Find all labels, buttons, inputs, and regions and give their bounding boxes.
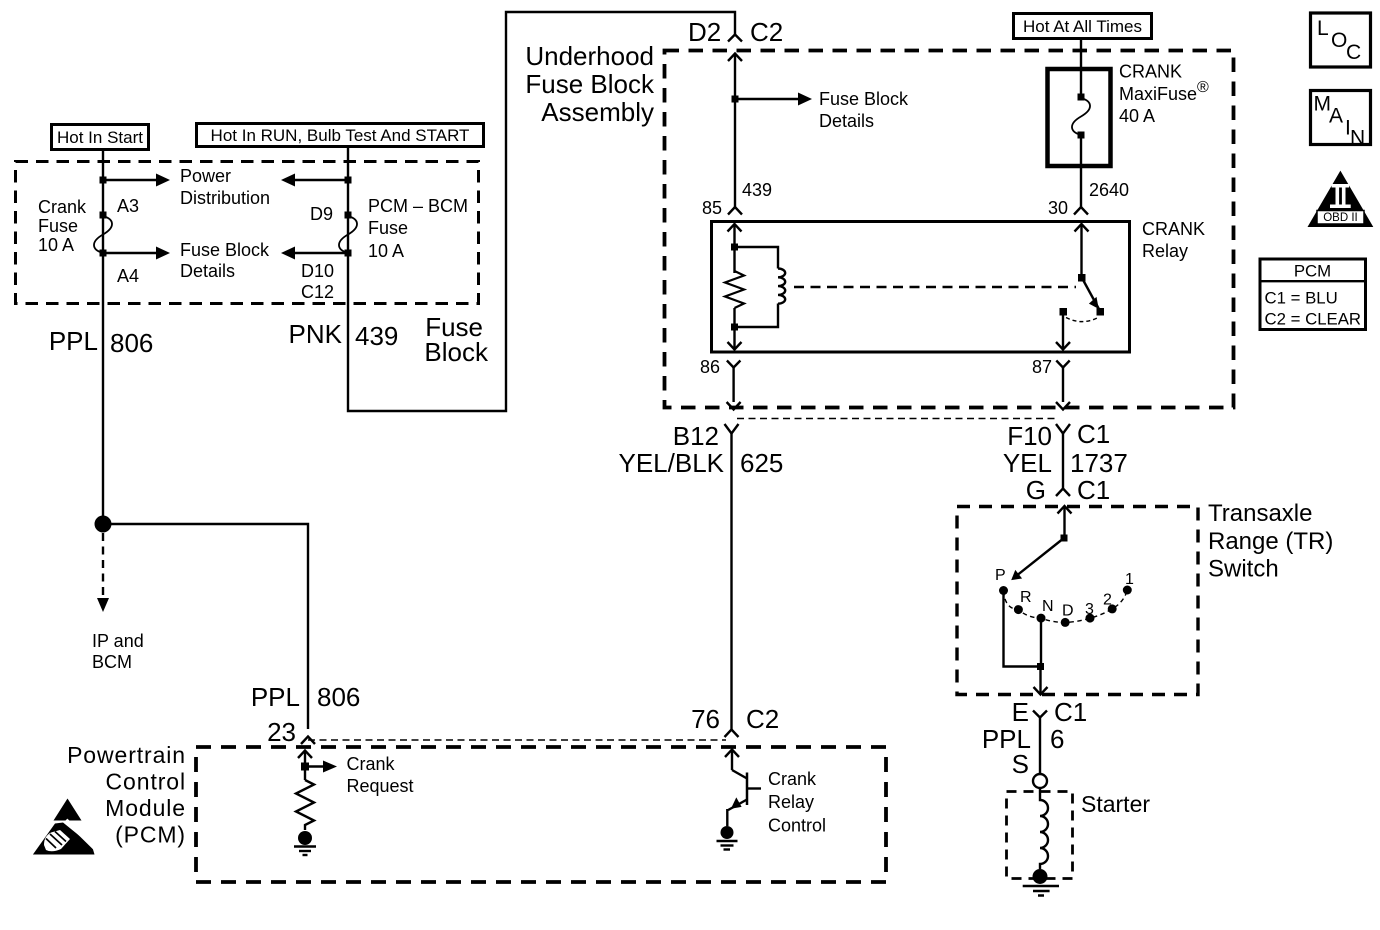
label Transaxle Range (TR) Switch: [1208, 500, 1333, 583]
wire label PNK 439: [289, 319, 399, 351]
maxifuse bottom terminal: [1078, 132, 1085, 139]
PCM pin 23 arrow up: [298, 751, 312, 781]
MAIN legend box: [1311, 91, 1371, 150]
svg-text:MaxiFuse: MaxiFuse: [1119, 84, 1197, 104]
transistor ground: [717, 826, 738, 850]
svg-text:439: 439: [742, 180, 772, 200]
relay switch contact (NO): [1097, 308, 1105, 316]
arrow to Power Distribution (left): [103, 174, 170, 187]
svg-text:Details: Details: [819, 111, 874, 131]
maxifuse element: [1072, 98, 1090, 135]
svg-text:Control: Control: [106, 769, 186, 795]
wire maxifuse to pin 30: [1080, 135, 1082, 207]
svg-text:1737: 1737: [1070, 448, 1128, 478]
svg-text:Hot In RUN, Bulb Test And STAR: Hot In RUN, Bulb Test And START: [211, 126, 470, 145]
svg-text:Block: Block: [424, 337, 489, 367]
relay coil winding: [738, 247, 785, 327]
thin dashed connector line PCM: [308, 739, 726, 741]
svg-text:Assembly: Assembly: [541, 97, 654, 127]
svg-text:Underhood: Underhood: [525, 41, 654, 71]
svg-text:Crank: Crank: [347, 754, 396, 774]
wire pin 87 arrow down: [1056, 316, 1070, 350]
svg-text:PCM: PCM: [1294, 262, 1331, 281]
wire label PPL 6: [982, 724, 1065, 754]
wire to PCM pin 23: [103, 524, 308, 729]
connector chevron 76: [725, 730, 739, 738]
pin 76 C2: [691, 704, 779, 734]
svg-text:D9: D9: [310, 204, 333, 224]
svg-text:86: 86: [700, 357, 720, 377]
svg-text:2640: 2640: [1089, 180, 1129, 200]
svg-text:10 A: 10 A: [38, 235, 74, 255]
svg-text:76: 76: [691, 704, 720, 734]
svg-text:PCM – BCM: PCM – BCM: [368, 196, 468, 216]
wire PNK 439 from Hot In RUN box through fuse, loop to D2: [348, 12, 735, 411]
svg-text:Fuse Block: Fuse Block: [525, 69, 655, 99]
svg-text:Hot At All Times: Hot At All Times: [1023, 17, 1142, 36]
svg-text:Details: Details: [180, 261, 235, 281]
connector chevron 30: [1074, 207, 1088, 215]
TR contact dashed arc: [1004, 590, 1128, 622]
fuse block dashed box: [16, 162, 479, 304]
TR contact R: [1014, 605, 1023, 614]
LOC legend box: [1311, 13, 1371, 67]
starter ground: [1023, 869, 1059, 896]
svg-text:C: C: [1346, 41, 1361, 64]
svg-text:BCM: BCM: [92, 652, 132, 672]
junction D10 fuse bottom: [345, 250, 352, 257]
connector chevron 23: [301, 737, 315, 745]
label box "Hot In Start": [52, 125, 149, 150]
svg-text:Relay: Relay: [1142, 241, 1188, 261]
TR wire in, arrow up: [1058, 506, 1072, 538]
junction D9 fuse top: [345, 212, 352, 219]
TR output arrow down: [1034, 667, 1048, 695]
svg-text:G: G: [1026, 475, 1046, 505]
transistor Q1 crank relay driver: [727, 770, 761, 826]
label Underhood Fuse Block Assembly: [525, 41, 655, 127]
svg-text:L: L: [1317, 17, 1329, 40]
junction A3 fuse top: [100, 212, 107, 219]
svg-text:806: 806: [317, 682, 360, 712]
TR contact P: [999, 586, 1008, 595]
CRANK relay box: [712, 222, 1130, 353]
relay switch contact pin 87: [1060, 308, 1068, 316]
svg-text:30: 30: [1048, 198, 1068, 218]
wire to pin 86, arrow down: [728, 308, 742, 350]
svg-text:O: O: [1331, 29, 1347, 52]
label PCM-BCM Fuse 10 A: [368, 196, 468, 261]
connector chevron D2/C2: [728, 35, 742, 42]
label Fuse Block Details (underhood): [819, 89, 909, 131]
svg-text:C1: C1: [1077, 475, 1110, 505]
terminal ring: [1033, 774, 1047, 788]
svg-text:10 A: 10 A: [368, 241, 404, 261]
svg-text:A3: A3: [117, 196, 139, 216]
junction dot to IP/BCM: [95, 516, 112, 533]
TR wire N to output: [1040, 622, 1042, 667]
svg-text:2: 2: [1103, 592, 1112, 609]
pin 87 connector and arrow: [1032, 357, 1070, 410]
relay switch common junction: [1078, 274, 1086, 282]
svg-text:D: D: [1062, 603, 1074, 620]
wire YEL/BLK 625: [730, 434, 732, 730]
starter dashed box: [1007, 792, 1073, 879]
svg-text:PNK: PNK: [289, 319, 343, 349]
svg-text:806: 806: [110, 328, 153, 358]
relay coil bottom junction: [731, 324, 738, 331]
svg-text:1: 1: [1125, 571, 1134, 588]
svg-text:439: 439: [355, 321, 398, 351]
svg-text:Transaxle: Transaxle: [1208, 500, 1312, 527]
svg-text:Request: Request: [347, 776, 414, 796]
svg-text:A4: A4: [117, 266, 139, 286]
svg-text:D10: D10: [301, 261, 334, 281]
svg-text:Crank: Crank: [768, 769, 817, 789]
label box "Hot At All Times": [1014, 14, 1152, 39]
arrow to Crank Request: [305, 761, 337, 773]
svg-text:Power: Power: [180, 166, 231, 186]
connector chevron 85: [728, 207, 742, 215]
wire PPL 806 from Hot In Start down: [102, 151, 104, 524]
OBD II symbol: [1308, 171, 1374, 227]
label Power Distribution: [180, 166, 270, 208]
PCM pin 76 arrow up: [725, 750, 739, 771]
label Powertrain Control Module (PCM): [67, 742, 186, 848]
svg-text:CRANK: CRANK: [1142, 219, 1205, 239]
connector labels D2 C2: [688, 17, 783, 47]
thin dashed connector line B12-F10: [737, 418, 1056, 420]
label Fuse Block Details: [180, 240, 270, 281]
svg-text:Range (TR): Range (TR): [1208, 528, 1333, 555]
svg-text:87: 87: [1032, 357, 1052, 377]
starter solenoid coil: [1040, 788, 1048, 869]
relay resistor: [725, 271, 744, 308]
svg-text:C12: C12: [301, 282, 334, 302]
svg-text:Switch: Switch: [1208, 556, 1279, 583]
svg-text:Module: Module: [105, 795, 186, 821]
arrow to Fuse Block Details (underhood): [735, 93, 812, 106]
svg-text:YEL: YEL: [1003, 448, 1052, 478]
PCM connector legend table: [1260, 259, 1366, 330]
connector B12: [673, 421, 739, 451]
svg-text:C2 = CLEAR: C2 = CLEAR: [1265, 310, 1362, 329]
TR contact D: [1061, 618, 1070, 627]
svg-text:C1: C1: [1077, 419, 1110, 449]
label Crank Relay Control: [768, 769, 826, 836]
connector E C1: [1012, 697, 1088, 727]
TR wiper arm with arrowhead: [1011, 538, 1064, 580]
label CRANK Relay: [1142, 219, 1205, 261]
svg-text:C2: C2: [746, 704, 779, 734]
wire label YEL/BLK 625: [618, 448, 783, 478]
svg-text:E: E: [1012, 697, 1029, 727]
svg-text:B12: B12: [673, 421, 719, 451]
svg-text:®: ®: [1197, 79, 1209, 96]
label Crank Fuse 10 A: [38, 197, 87, 255]
TR wire P to output: [1004, 593, 1041, 667]
wire YEL 1737: [1062, 434, 1064, 489]
wire label PPL 806 (lower): [251, 682, 361, 712]
TR contact 3: [1086, 614, 1095, 623]
relay coil pin 85 wire, arrow up: [728, 224, 742, 273]
PCM-BCM fuse element: [339, 216, 357, 253]
svg-text:CRANK: CRANK: [1119, 62, 1182, 82]
connector F10 C1: [1007, 419, 1110, 451]
TR switch dashed box: [957, 507, 1198, 695]
svg-text:PPL: PPL: [49, 326, 98, 356]
wire label YEL 1737: [1003, 448, 1128, 478]
junction D9 top: [345, 177, 352, 184]
arrow from D9 to Power Distribution (pointing left): [281, 174, 348, 187]
dashed wire to IP and BCM: [97, 533, 109, 612]
wire label PPL 806: [49, 326, 154, 358]
CRANK MaxiFuse box: [1048, 69, 1111, 166]
ESD symbol: [33, 799, 95, 855]
svg-text:Relay: Relay: [768, 792, 814, 812]
wire from Hot At All Times to maxifuse: [1080, 40, 1082, 97]
maxifuse top terminal: [1078, 94, 1085, 101]
label CRANK MaxiFuse 40 A: [1119, 62, 1209, 127]
svg-text:PPL: PPL: [251, 682, 300, 712]
svg-text:Distribution: Distribution: [180, 188, 270, 208]
svg-text:3: 3: [1085, 601, 1094, 618]
junction to fuse block details: [732, 96, 739, 103]
relay actuation dashed link: [794, 286, 1076, 288]
svg-text:C1: C1: [1054, 697, 1087, 727]
relay switch pin 30 wire, arrow up: [1075, 224, 1089, 277]
svg-text:23: 23: [267, 717, 296, 747]
PCM resistor ground: [294, 831, 316, 855]
svg-text:R: R: [1020, 589, 1032, 606]
svg-text:625: 625: [740, 448, 783, 478]
svg-text:OBD II: OBD II: [1323, 212, 1358, 224]
relay switch blade with arrowhead: [1082, 278, 1100, 311]
svg-text:(PCM): (PCM): [115, 822, 186, 848]
svg-text:Control: Control: [768, 816, 826, 836]
PCM dashed box: [196, 747, 886, 882]
label box "Hot In RUN, Bulb Test And START": [197, 124, 484, 147]
wire PPL 6: [1039, 718, 1041, 775]
TR contact 2: [1108, 604, 1117, 613]
svg-text:6: 6: [1050, 724, 1064, 754]
svg-text:IP and: IP and: [92, 631, 144, 651]
svg-text:Hot In Start: Hot In Start: [57, 128, 143, 147]
svg-text:C2: C2: [750, 17, 783, 47]
svg-text:P: P: [995, 567, 1006, 584]
relay switch dashed arc: [1066, 318, 1097, 322]
svg-text:40 A: 40 A: [1119, 106, 1155, 126]
svg-text:C1 = BLU: C1 = BLU: [1265, 289, 1338, 308]
svg-text:Starter: Starter: [1081, 791, 1150, 817]
svg-text:A: A: [1329, 105, 1343, 128]
svg-text:N: N: [1042, 598, 1054, 615]
crank fuse element: [94, 216, 112, 253]
svg-text:Fuse: Fuse: [368, 218, 408, 238]
connector G C1: [1026, 475, 1110, 505]
wire 439 into box, arrow up: [728, 54, 742, 208]
svg-text:Powertrain: Powertrain: [67, 742, 186, 768]
svg-text:YEL/BLK: YEL/BLK: [618, 448, 724, 478]
svg-text:N: N: [1350, 127, 1365, 150]
TR output junction: [1037, 663, 1044, 670]
svg-text:Fuse Block: Fuse Block: [819, 89, 909, 109]
arrow to Fuse Block Details (left): [103, 247, 170, 260]
crank request junction: [301, 763, 309, 771]
junction A4 fuse bottom: [100, 250, 107, 257]
junction A3 top: [100, 177, 107, 184]
PCM pull-down resistor: [296, 780, 314, 830]
TR contact N: [1037, 614, 1046, 623]
svg-text:S: S: [1012, 749, 1029, 779]
svg-text:Crank: Crank: [38, 197, 87, 217]
svg-text:Fuse: Fuse: [38, 216, 78, 236]
underhood fuse block assembly dashed box: [665, 51, 1234, 408]
pin 86 connector and arrow: [700, 357, 741, 410]
relay coil top junction: [731, 244, 738, 251]
TR contact 1: [1123, 586, 1132, 595]
svg-text:Fuse Block: Fuse Block: [180, 240, 270, 260]
TR contact labels: [995, 567, 1134, 620]
svg-text:F10: F10: [1007, 421, 1052, 451]
svg-text:D2: D2: [688, 17, 721, 47]
svg-text:85: 85: [702, 198, 722, 218]
label Crank Request: [347, 754, 414, 796]
TR common junction: [1061, 535, 1068, 542]
label Fuse Block (large): [424, 312, 489, 367]
label IP and BCM: [92, 631, 144, 672]
arrow from D10 to Fuse Block Details (pointing left): [281, 247, 348, 260]
